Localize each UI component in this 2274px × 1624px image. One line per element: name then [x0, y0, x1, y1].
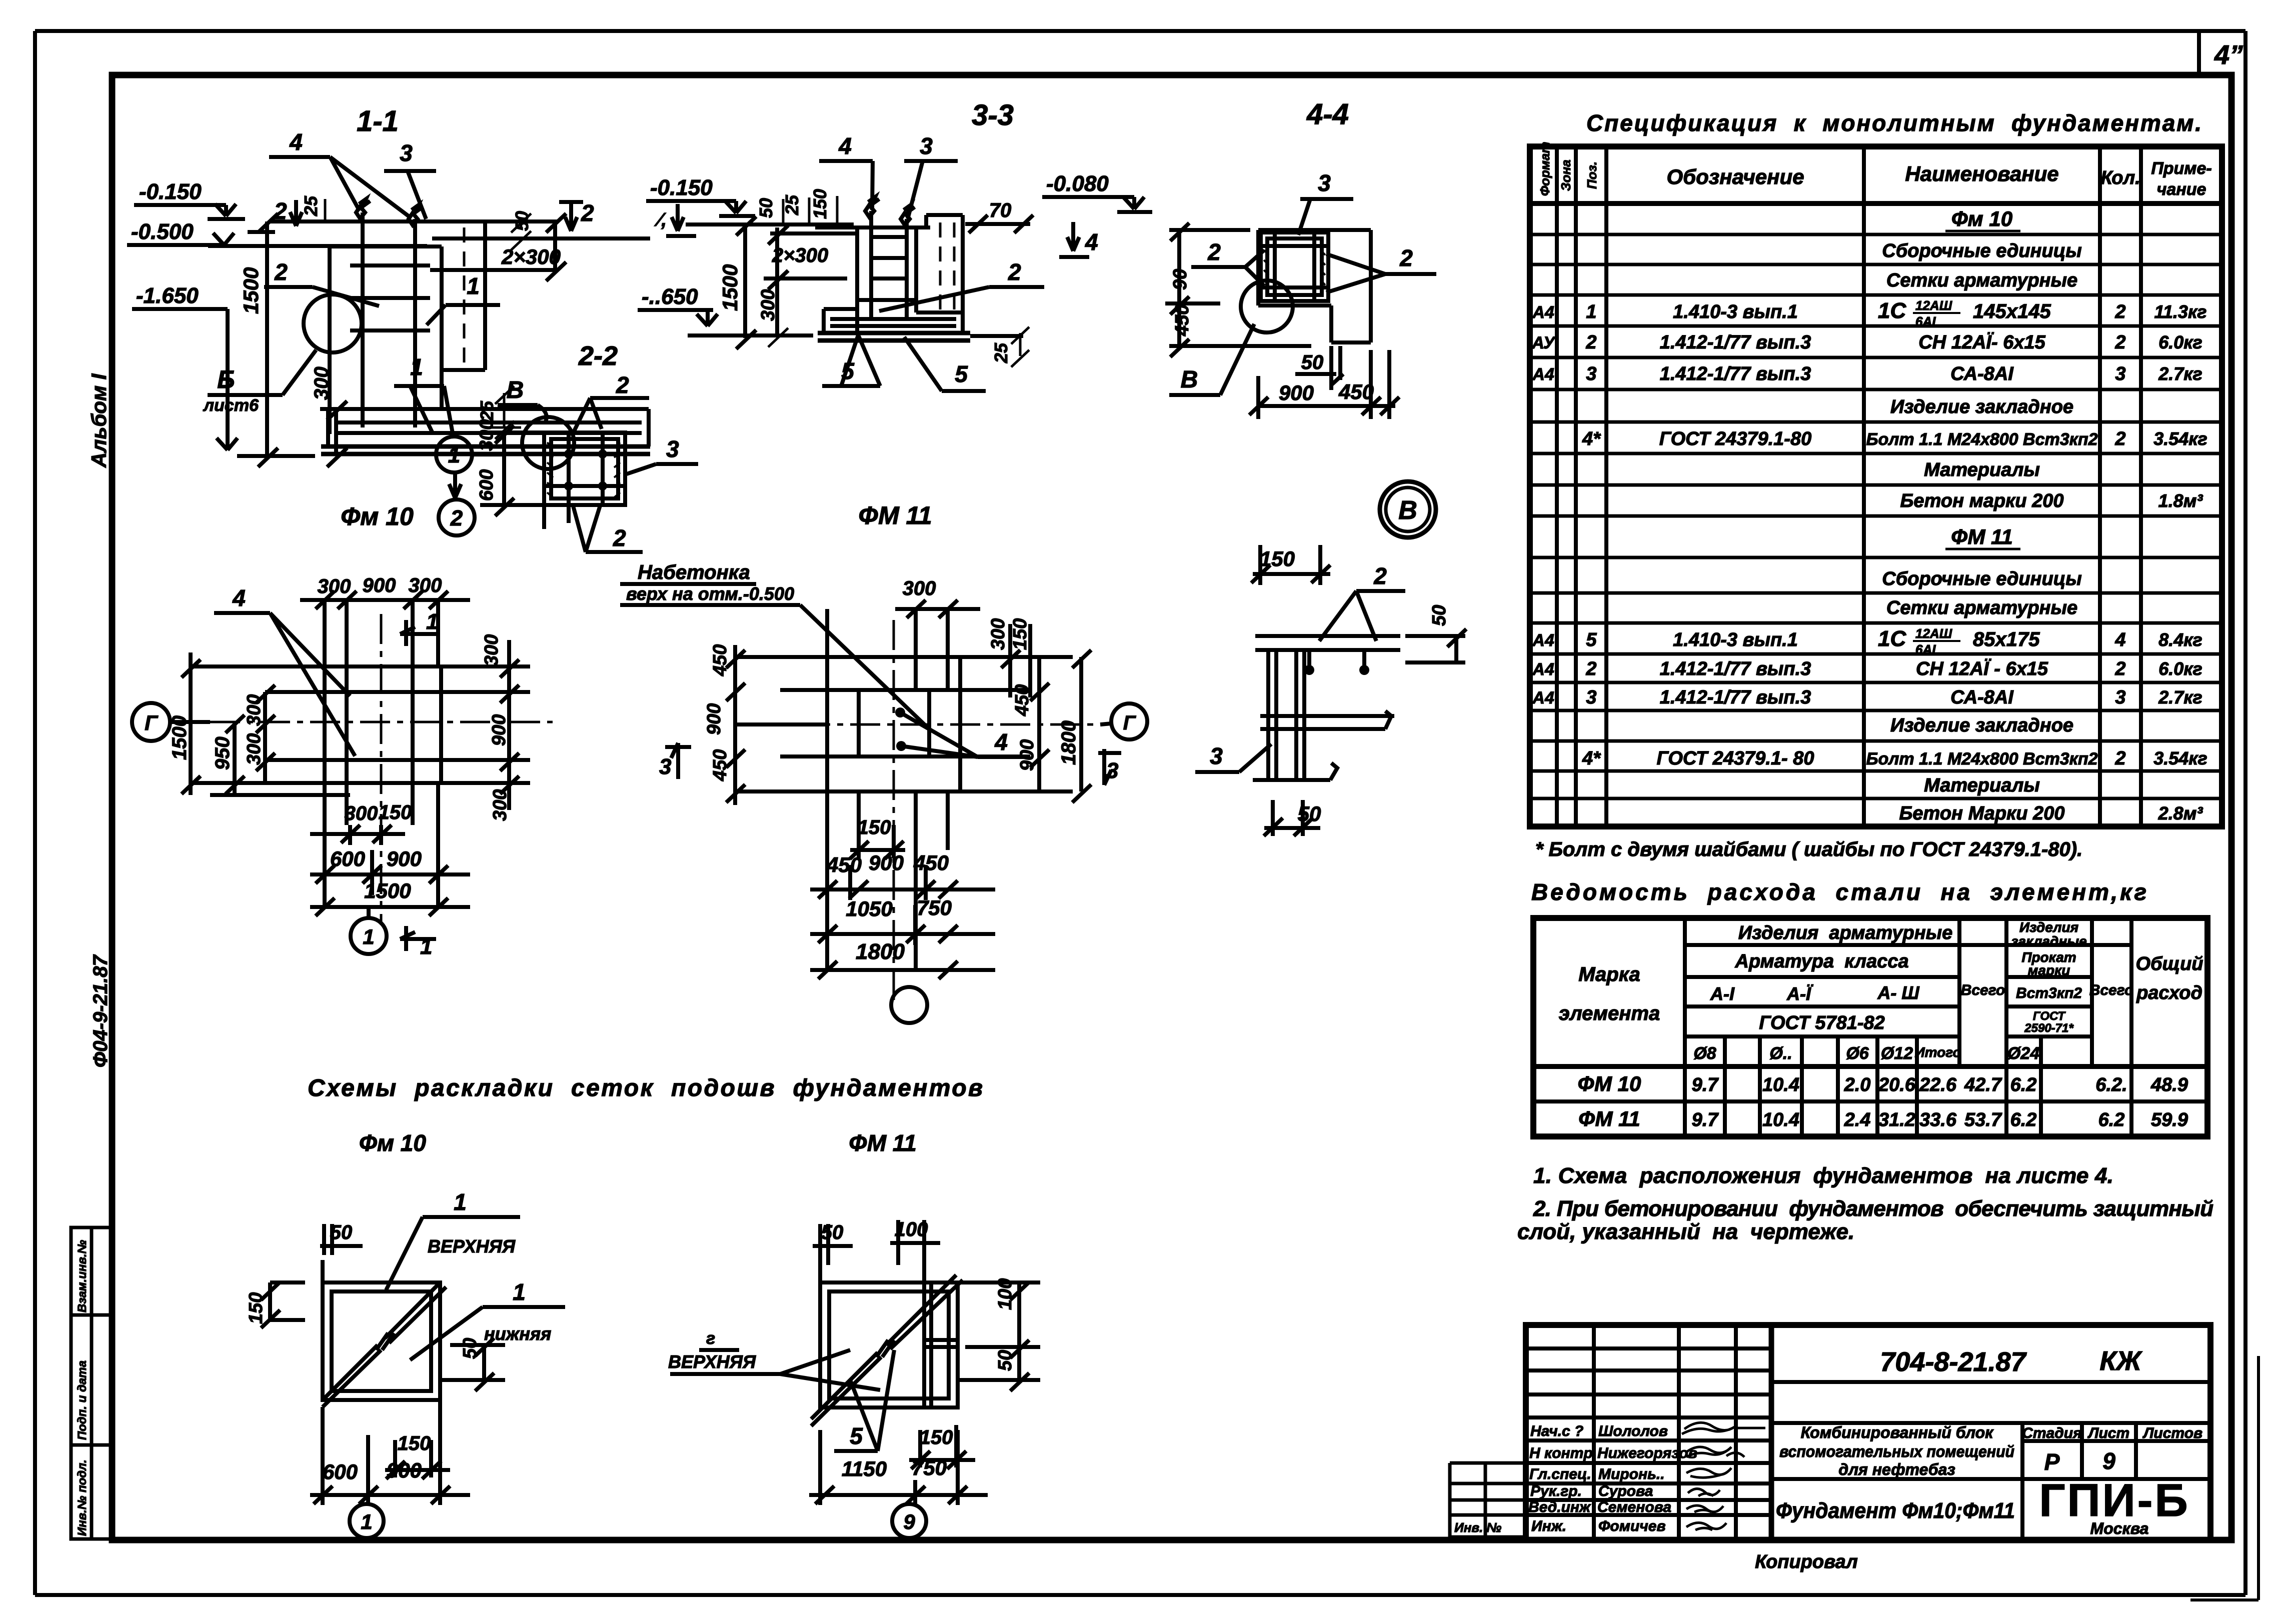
left dims 450 900 450 FM11 [704, 644, 745, 805]
svg-text:50: 50 [1301, 351, 1324, 373]
svg-text:4: 4 [1085, 229, 1098, 255]
svg-text:Копировал: Копировал [1755, 1551, 1858, 1572]
pedestal section [330, 246, 442, 434]
svg-text:2: 2 [2114, 301, 2125, 322]
svg-text:1: 1 [426, 609, 438, 634]
dim 70 [965, 199, 1033, 233]
level mark -0.150 (3-3) [646, 175, 755, 216]
dashed formwork 3-3 [940, 222, 954, 320]
anchor plate plan 2-2 [544, 432, 625, 505]
svg-text:1.8м³: 1.8м³ [2158, 490, 2203, 511]
svg-text:950: 950 [212, 736, 234, 770]
svg-text:2.0: 2.0 [1844, 1074, 1871, 1095]
svg-text:2: 2 [274, 259, 288, 285]
svg-text:Сурова: Сурова [1598, 1483, 1653, 1499]
dim 50 top FM10 [320, 1221, 363, 1282]
anchor bolt right [409, 205, 423, 427]
weld hatch 4-4 [1264, 250, 1325, 285]
svg-text:Взам.инв.№: Взам.инв.№ [76, 1239, 89, 1312]
extended horizontals FM10 [191, 666, 530, 783]
svg-text:ГОСТ 24379.1- 80: ГОСТ 24379.1- 80 [1657, 748, 1814, 769]
svg-text:А4: А4 [1532, 365, 1554, 384]
svg-text:6.2: 6.2 [2098, 1109, 2125, 1130]
svg-text:2: 2 [1373, 563, 1387, 589]
dim 2x300 top right [430, 213, 566, 281]
anchor bolts 3-3 [865, 197, 915, 320]
svg-text:300: 300 [345, 802, 378, 824]
right dims 450 900 FM11 [1012, 657, 1049, 791]
svg-text:6АІ: 6АІ [1915, 314, 1936, 329]
svg-text:А-І: А-І [1710, 983, 1735, 1004]
bolts below plate [1304, 650, 1369, 675]
svg-text:33.6: 33.6 [1919, 1109, 1957, 1130]
grid bubble 1 mesh FM10 [350, 1504, 384, 1538]
extended verticals FM10 [325, 600, 438, 907]
steel table grid [1533, 918, 2207, 1136]
svg-text:Инж.: Инж. [1531, 1518, 1566, 1534]
level line -0.500 [208, 244, 427, 248]
svg-text:В: В [507, 377, 524, 403]
svg-text:1-1: 1-1 [357, 105, 399, 137]
svg-text:1500: 1500 [718, 264, 742, 311]
left margin stamp table [71, 1227, 112, 1539]
svg-text:3: 3 [1210, 743, 1223, 769]
svg-text:600: 600 [476, 469, 497, 501]
svg-text:1800: 1800 [1058, 720, 1080, 765]
svg-text:Сборочные единицы: Сборочные единицы [1882, 240, 2081, 261]
leader 3 (4-4) [1298, 170, 1353, 235]
leader 2 to pedestal [264, 259, 379, 306]
svg-text:Изделие закладное: Изделие закладное [1890, 396, 2073, 417]
svg-text:г: г [706, 1329, 715, 1348]
svg-text:900: 900 [1279, 381, 1314, 404]
svg-text:Всего: Всего [1961, 982, 2005, 998]
svg-text:вспомогательных помещений: вспомогательных помещений [1779, 1442, 2014, 1460]
mesh square FM11 [820, 1282, 958, 1407]
svg-text:Ф04-9-21.87: Ф04-9-21.87 [90, 954, 112, 1067]
svg-text:300: 300 [758, 289, 779, 321]
pedestal hoops 3-3 [857, 237, 916, 300]
svg-text:-0.500: -0.500 [131, 219, 194, 244]
svg-text:Болт 1.1 М24х800 Вст3кп2: Болт 1.1 М24х800 Вст3кп2 [1866, 749, 2097, 768]
dims 50 100 top FM11 [813, 1218, 940, 1282]
svg-text:42.7: 42.7 [1964, 1074, 2002, 1095]
svg-text:3: 3 [666, 436, 679, 462]
svg-text:Ø8: Ø8 [1693, 1044, 1716, 1063]
svg-text:2: 2 [1207, 239, 1221, 265]
svg-text:Итого: Итого [1914, 1044, 1961, 1060]
svg-text:59.9: 59.9 [2151, 1109, 2188, 1130]
svg-text:Спецификация к монолитным ф: Спецификация к монолитным фундаментам. [1586, 110, 2201, 136]
svg-text:Всего: Всего [2089, 982, 2134, 998]
lower rail (detail V) [1260, 711, 1394, 729]
svg-text:ГОСТ 5781-82: ГОСТ 5781-82 [1759, 1012, 1885, 1033]
svg-text:3: 3 [1318, 170, 1331, 196]
svg-text:1: 1 [410, 354, 423, 380]
svg-text:48.9: 48.9 [2150, 1074, 2188, 1095]
svg-text:450: 450 [913, 851, 949, 874]
svg-text:Сборочные единицы: Сборочные единицы [1882, 568, 2081, 589]
svg-text:-0.150: -0.150 [650, 175, 713, 200]
svg-text:450: 450 [1338, 380, 1374, 403]
svg-text:31.2: 31.2 [1878, 1109, 1915, 1130]
svg-text:9.7: 9.7 [1692, 1074, 1719, 1095]
bottom dims 1050 750 FM11 [810, 896, 995, 945]
svg-text:слой, указанный на чертеже.: слой, указанный на чертеже. [1517, 1219, 1854, 1244]
svg-text:Подп. и дата: Подп. и дата [76, 1360, 89, 1440]
svg-text:3.54кг: 3.54кг [2153, 748, 2207, 768]
pedestal FM11 [859, 690, 929, 756]
svg-text:150: 150 [858, 816, 891, 838]
svg-text:25: 25 [782, 194, 802, 215]
svg-text:2: 2 [274, 198, 287, 224]
svg-text:Сетки арматурные: Сетки арматурные [1886, 270, 2077, 291]
svg-text:Миронь..: Миронь.. [1598, 1466, 1665, 1482]
leader 1 bottom [394, 354, 453, 433]
svg-text:8.4кг: 8.4кг [2158, 629, 2202, 650]
svg-text:1: 1 [1586, 301, 1596, 322]
leader 3 [384, 140, 436, 219]
svg-text:3-3: 3-3 [972, 99, 1014, 131]
svg-text:5: 5 [1586, 629, 1597, 650]
svg-text:1: 1 [363, 925, 374, 948]
svg-text:Обозначение: Обозначение [1666, 165, 1804, 188]
svg-text:СА-8АІ: СА-8АІ [1950, 363, 2014, 384]
svg-text:300: 300 [903, 577, 936, 599]
top dim 300 900 300 FM10 [300, 574, 470, 609]
dim 900 450 bottom (4-4) [1249, 350, 1399, 419]
svg-text:Изделия: Изделия [2019, 919, 2078, 935]
marker 2 arrow right [559, 200, 594, 231]
grid bubble 1 [436, 436, 504, 472]
svg-text:25: 25 [991, 342, 1011, 363]
svg-text:1С: 1С [1878, 626, 1906, 651]
svg-text:А- Ш: А- Ш [1877, 982, 1919, 1003]
dim 1500 vertical [239, 213, 278, 467]
column right [442, 221, 485, 370]
svg-text:2×300: 2×300 [501, 245, 561, 268]
svg-text:1: 1 [467, 273, 480, 299]
bottom dim 1800 FM11 [810, 939, 995, 979]
svg-text:4”: 4” [2214, 40, 2243, 70]
svg-text:2: 2 [1008, 259, 1021, 285]
svg-text:1: 1 [448, 443, 460, 467]
svg-text:10.4: 10.4 [1762, 1109, 1799, 1130]
names column labels [1528, 1423, 1597, 1534]
svg-text:* Болт с двумя шайбами ( шайбы: * Болт с двумя шайбами ( шайбы по ГОСТ 2… [1535, 838, 2082, 860]
section marker 1 top FM10 [400, 609, 438, 646]
svg-text:150: 150 [379, 801, 412, 823]
leader 5 left [822, 335, 880, 386]
dim 25 [301, 195, 325, 222]
svg-text:2: 2 [2114, 748, 2125, 769]
svg-text:Фундамент Фм10;Фм11: Фундамент Фм10;Фм11 [1776, 1498, 2015, 1523]
leader 3 right of 2-2 [627, 436, 698, 474]
label V (4-4) [1169, 324, 1254, 395]
detail circle B [304, 294, 362, 352]
svg-text:3: 3 [400, 140, 413, 166]
svg-text:5: 5 [955, 361, 968, 387]
corner cell 4 [2199, 31, 2243, 75]
svg-text:-..650: -..650 [642, 284, 698, 309]
svg-text:450: 450 [1012, 684, 1033, 716]
dim 90 450 left (4-4) [1165, 223, 1311, 357]
svg-text:А4: А4 [1532, 660, 1554, 679]
level mark -0.150 [134, 179, 245, 219]
svg-text:ФМ 11: ФМ 11 [1951, 525, 2013, 548]
svg-text:Общий: Общий [2135, 953, 2203, 974]
svg-text:-0.150: -0.150 [139, 179, 202, 204]
svg-text:900: 900 [704, 703, 725, 735]
concrete outline 4-4 [1258, 230, 1371, 342]
footing slab [328, 409, 649, 446]
second top line [432, 236, 650, 240]
right dims 300 150 FM11 [988, 618, 1031, 697]
svg-text:1.410-3 вып.1: 1.410-3 вып.1 [1673, 301, 1798, 322]
svg-text:Кол.: Кол. [2100, 167, 2140, 188]
svg-text:ФМ 11: ФМ 11 [849, 1130, 916, 1156]
svg-text:1: 1 [454, 1189, 467, 1215]
leader 4 FM11 [900, 712, 1024, 757]
left dims FM10 [169, 652, 350, 795]
svg-text:Набетонка: Набетонка [638, 561, 750, 583]
dim 150 bottom FM11 mesh [909, 1425, 975, 1469]
dashed form line [463, 227, 466, 366]
base level line 3-3 [688, 333, 813, 337]
footing mesh 3-3 [830, 319, 956, 326]
dim 1500 vertical 3-3 [718, 216, 756, 349]
bottom dim 150 FM11 [850, 816, 905, 859]
leader 2 right (4-4) [1326, 245, 1436, 292]
leader 2 (3-3) [879, 259, 1044, 311]
dim 2x300 3-3 [764, 225, 856, 336]
bottom dims 450 900 450 FM11 [810, 851, 995, 900]
footing base 3-3 [818, 333, 970, 340]
level mark -1.650 (3-3) [638, 284, 718, 326]
level line top 3-3 [686, 222, 854, 226]
svg-text:Г: Г [145, 711, 159, 734]
bolt dots FM11 [895, 707, 906, 751]
leader 4 to anchor bolts [269, 129, 411, 218]
leader 5 FM11 mesh [834, 1350, 894, 1451]
svg-text:2: 2 [1585, 332, 1596, 353]
svg-text:450: 450 [710, 644, 731, 676]
svg-text:2. При бетонировании фундамен: 2. При бетонировании фундаментов обеспеч… [1533, 1196, 2213, 1221]
leader 2 top of 2-2 [574, 372, 649, 431]
svg-text:1500: 1500 [364, 879, 411, 902]
svg-text:СА-8АІ: СА-8АІ [1950, 687, 2014, 708]
svg-text:4: 4 [2114, 629, 2125, 650]
plate (detail V) [1255, 636, 1400, 650]
footing base lines [321, 446, 650, 454]
svg-text:Материалы: Материалы [1924, 775, 2040, 796]
extended verticals FM11 [827, 609, 948, 970]
svg-text:Болт 1.1 М24х800 Вст3кп2: Болт 1.1 М24х800 Вст3кп2 [1866, 430, 2097, 449]
svg-text:А4: А4 [1532, 303, 1554, 322]
svg-text:3: 3 [2115, 687, 2125, 708]
pedestal hoops [350, 265, 430, 330]
svg-text:В: В [1181, 366, 1198, 393]
svg-text:3: 3 [1586, 363, 1596, 384]
small cells left of title block [1450, 1463, 1526, 1537]
svg-text:3: 3 [659, 754, 671, 779]
detail circle V on 2-2 [522, 417, 574, 469]
svg-text:Фм 10: Фм 10 [359, 1130, 426, 1156]
leader 1 to column [427, 273, 500, 325]
svg-text:6.2: 6.2 [2010, 1109, 2037, 1130]
svg-text:Листов: Листов [2142, 1425, 2202, 1441]
dims 50 25 150 rotated [756, 189, 837, 226]
svg-text:3.54кг: 3.54кг [2153, 428, 2207, 449]
svg-text:АУ: АУ [1531, 333, 1556, 352]
svg-text:300: 300 [409, 574, 442, 596]
svg-text:750: 750 [917, 896, 952, 919]
svg-text:В: В [1398, 496, 1417, 525]
level mark -1.650 [132, 283, 238, 450]
svg-text:1150: 1150 [842, 1457, 887, 1480]
dim 300 600 left of 2-2 [476, 419, 544, 516]
svg-text:А4: А4 [1532, 631, 1554, 650]
section arrow 4 right [1059, 222, 1098, 257]
mesh diagonal FM10 [323, 1282, 446, 1407]
bottom dims 1150 750 FM11 mesh [809, 1430, 988, 1505]
svg-text:300: 300 [476, 419, 497, 451]
svg-text:70: 70 [989, 199, 1012, 221]
anchor plate 4-4 [1261, 232, 1328, 301]
posts (detail V) [1268, 650, 1304, 780]
svg-text:Ø..: Ø.. [1769, 1044, 1792, 1063]
svg-text:Фомичев: Фомичев [1598, 1518, 1666, 1534]
svg-text:25: 25 [477, 400, 497, 421]
svg-text:Формат: Формат [1537, 141, 1552, 196]
svg-text:Б: Б [217, 365, 235, 393]
svg-text:Марка: Марка [1578, 963, 1640, 985]
svg-text:ГОСТ 24379.1-80: ГОСТ 24379.1-80 [1659, 428, 1811, 449]
dim 50 right (detail V) [1405, 605, 1466, 662]
svg-text:СН 12АЇ - 6х15: СН 12АЇ - 6х15 [1916, 658, 2048, 679]
grid bubble empty FM11 [891, 987, 927, 1023]
svg-text:2: 2 [2114, 428, 2125, 449]
svg-text:150: 150 [398, 1432, 431, 1454]
svg-text:150: 150 [1010, 618, 1031, 650]
section marker 3 right FM11 [1098, 749, 1121, 785]
names [1597, 1423, 1697, 1534]
svg-text:4: 4 [232, 585, 246, 611]
svg-text:Сетки арматурные: Сетки арматурные [1886, 597, 2077, 618]
svg-text:расход: расход [2136, 982, 2202, 1003]
svg-text:3: 3 [920, 133, 933, 159]
svg-text:300: 300 [988, 618, 1009, 650]
svg-text:-0.080: -0.080 [1046, 171, 1109, 196]
bolt dots 2-2 [564, 449, 607, 490]
svg-text:Москва: Москва [2090, 1519, 2149, 1537]
svg-text:12АШ: 12АШ [1915, 626, 1952, 641]
svg-text:6АІ: 6АІ [1915, 642, 1936, 657]
svg-text:элемента: элемента [1559, 1002, 1660, 1024]
svg-text:Изделие закладное: Изделие закладное [1890, 715, 2073, 736]
svg-text:Семенова: Семенова [1597, 1499, 1671, 1515]
leader 4 FM10 [214, 585, 355, 756]
right dims FM10 [480, 634, 530, 821]
footing outline FM10 [325, 666, 441, 783]
section arrow left (3-3) [654, 204, 696, 236]
svg-text:Рук.гр.: Рук.гр. [1530, 1483, 1582, 1499]
dim 300 vertical [311, 366, 350, 467]
svg-text:ФМ 11: ФМ 11 [1578, 1107, 1640, 1130]
outer square FM11 [827, 657, 960, 791]
svg-text:Фм 10: Фм 10 [341, 502, 414, 530]
svg-text:2: 2 [1399, 245, 1413, 271]
svg-text:2: 2 [2114, 658, 2125, 679]
svg-text:4: 4 [994, 729, 1008, 755]
column right 3-3 [926, 215, 963, 312]
dim 150 left FM10 [246, 1282, 305, 1328]
svg-text:для нефтебаз: для нефтебаз [1838, 1460, 1955, 1478]
svg-text:11.3кг: 11.3кг [2154, 301, 2207, 322]
svg-text:лист6: лист6 [203, 396, 259, 415]
svg-text:ФМ 10: ФМ 10 [1578, 1072, 1641, 1095]
detail bubble V [1380, 481, 1436, 537]
svg-text:150: 150 [1260, 547, 1295, 570]
svg-text:Инв.№ подл.: Инв.№ подл. [76, 1459, 89, 1536]
svg-text:4: 4 [838, 133, 852, 159]
svg-text:Ø24: Ø24 [2007, 1044, 2039, 1063]
svg-text:1.412-1/77 вып.3: 1.412-1/77 вып.3 [1660, 658, 1811, 679]
anchor bolt left [356, 199, 370, 427]
svg-text:4: 4 [289, 129, 303, 155]
svg-text:Поз.: Поз. [1584, 161, 1599, 189]
svg-text:Приме-: Приме- [2151, 159, 2211, 178]
grid bubble 9 mesh FM11 [892, 1504, 926, 1538]
svg-text:Нижегорязов: Нижегорязов [1597, 1445, 1697, 1461]
svg-text:Ø6: Ø6 [1846, 1044, 1869, 1063]
svg-text:9: 9 [2102, 1448, 2115, 1474]
svg-text:900: 900 [387, 847, 422, 870]
svg-text:3: 3 [1586, 687, 1596, 708]
svg-text:50: 50 [756, 198, 776, 218]
svg-text:Шололов: Шололов [1598, 1423, 1668, 1439]
svg-text:Изделия арматурные: Изделия арматурные [1738, 922, 1952, 943]
svg-text:Зона: Зона [1558, 159, 1573, 191]
svg-text:Бетон марки 200: Бетон марки 200 [1900, 490, 2064, 511]
dim 150 (detail V) [1251, 545, 1330, 585]
svg-text:Вед.инж: Вед.инж [1528, 1499, 1591, 1515]
grid bubble G FM11 [1100, 703, 1147, 739]
svg-text:150: 150 [810, 189, 830, 219]
marker 2 arrow left [248, 198, 302, 232]
svg-text:Н контр.: Н контр. [1529, 1445, 1597, 1461]
svg-text:2: 2 [2114, 332, 2125, 353]
bottom dims FM10 [310, 801, 470, 916]
svg-text:Бетон Марки 200: Бетон Марки 200 [1899, 803, 2065, 824]
svg-text:Г: Г [1123, 712, 1137, 734]
svg-text:Лист: Лист [2087, 1425, 2129, 1441]
dim 50 bottom (detail V) [1264, 800, 1321, 836]
svg-text:300: 300 [244, 733, 265, 765]
svg-text:4-4: 4-4 [1306, 98, 1349, 130]
dim 50 right bottom FM10 [440, 1338, 505, 1391]
grid bubble 2 [439, 472, 475, 535]
spec table grid [1530, 146, 2222, 826]
svg-text:ВЕРХНЯЯ: ВЕРХНЯЯ [668, 1351, 756, 1372]
svg-text:Ведомость расхода стали на: Ведомость расхода стали на элемент,кг [1531, 879, 2146, 905]
steel table data FM10 [1578, 1072, 2188, 1095]
svg-text:2: 2 [450, 506, 463, 530]
svg-text:5: 5 [850, 1423, 863, 1449]
leader verhnyaya FM11 [668, 1329, 880, 1390]
leader 3 (detail V) [1195, 743, 1271, 772]
svg-text:1С: 1С [1878, 298, 1906, 323]
